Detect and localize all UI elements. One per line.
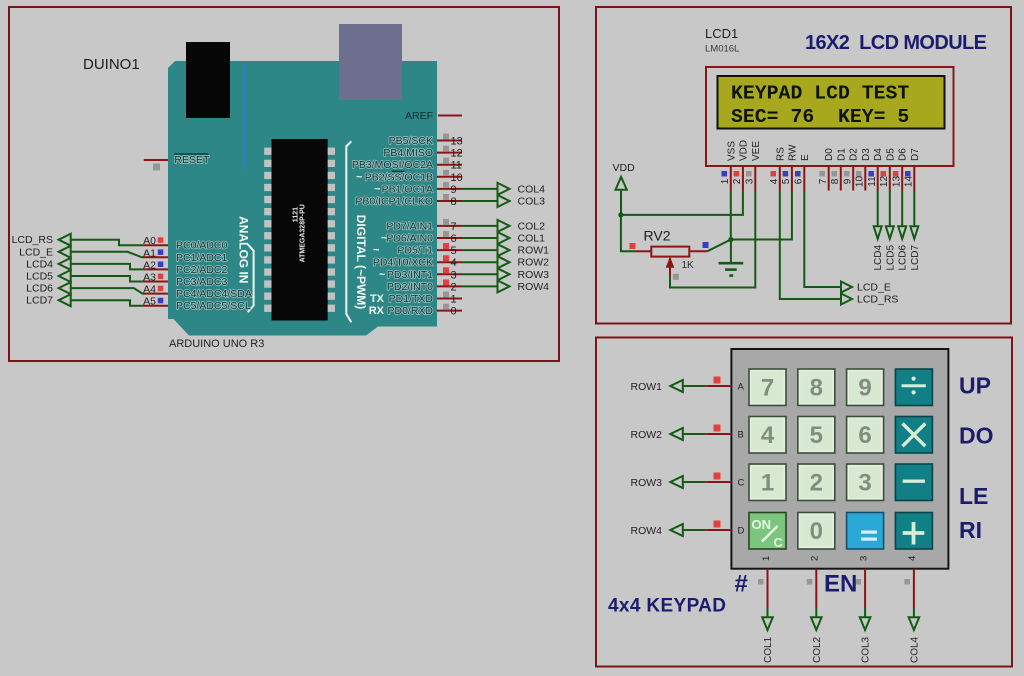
- svg-text:COL4: COL4: [909, 636, 920, 663]
- wire D4 to LCD4: [873, 191, 884, 271]
- svg-text:COL4: COL4: [518, 183, 546, 195]
- svg-text:D7: D7: [910, 148, 921, 161]
- svg-text:PD3/INT1: PD3/INT1: [387, 269, 433, 281]
- svg-text:TX: TX: [370, 293, 385, 305]
- svg-text:LCD_RS: LCD_RS: [12, 234, 53, 246]
- svg-text:VDD: VDD: [613, 162, 636, 174]
- svg-text:4: 4: [907, 556, 918, 561]
- svg-text:COL3: COL3: [861, 636, 872, 663]
- svg-text:RV2: RV2: [644, 228, 671, 244]
- svg-text:LCD7: LCD7: [26, 295, 53, 307]
- svg-text:4x4 KEYPAD: 4x4 KEYPAD: [608, 596, 726, 617]
- pin PD4/T0/XCK: [373, 255, 462, 269]
- pin RESET wire: [144, 159, 168, 161]
- junction node ground: [728, 237, 733, 242]
- svg-text:1: 1: [761, 556, 772, 561]
- button 5: [798, 417, 835, 454]
- USB connector: [186, 42, 230, 118]
- frame: Arduino module border: [9, 7, 559, 361]
- LCD LM016L body: [706, 67, 954, 166]
- junction node VDD: [618, 212, 623, 217]
- button plus: [895, 513, 932, 550]
- pin PB5/SCK: [389, 134, 463, 148]
- wire pin8 to COL3: [462, 195, 545, 208]
- svg-text:COL2: COL2: [518, 220, 546, 232]
- svg-text:D1: D1: [836, 148, 847, 161]
- pin PB1/OC1A: [374, 182, 462, 196]
- svg-text:PB5/SCK: PB5/SCK: [389, 135, 433, 147]
- wire RS to LCD_RS: [780, 191, 841, 300]
- LCD pin 7 stub: [818, 166, 829, 191]
- svg-text:8: 8: [451, 196, 457, 208]
- svg-text:ROW4: ROW4: [518, 281, 550, 293]
- wire pin6 to COL1: [462, 232, 545, 245]
- svg-text:COL1: COL1: [763, 636, 774, 663]
- svg-text:UP: UP: [959, 373, 991, 399]
- svg-text:COL1: COL1: [518, 233, 546, 245]
- svg-text:PB4/MISO: PB4/MISO: [383, 147, 433, 159]
- pin A5 PC5/ADC5/SCL: [143, 296, 251, 313]
- LCD screen: [718, 76, 945, 129]
- svg-text:PB0/ICP1/CLKO: PB0/ICP1/CLKO: [355, 196, 433, 208]
- svg-text:ROW2: ROW2: [631, 429, 663, 441]
- svg-text:PD5/T1: PD5/T1: [397, 245, 433, 257]
- svg-text:3: 3: [745, 178, 756, 184]
- svg-text:RI: RI: [959, 517, 982, 543]
- power VDD symbol: [613, 162, 636, 215]
- wire D6 to LCD6: [898, 191, 909, 271]
- svg-text:7: 7: [451, 221, 457, 233]
- svg-text:ROW3: ROW3: [518, 269, 550, 281]
- LCD pin 9 stub: [842, 166, 853, 191]
- svg-text:COL2: COL2: [812, 636, 823, 663]
- svg-text:ATMEGA328P-PU: ATMEGA328P-PU: [300, 204, 307, 262]
- svg-text:2: 2: [451, 281, 457, 293]
- button 9: [847, 369, 884, 406]
- svg-text:PD2/INT0: PD2/INT0: [387, 281, 433, 293]
- svg-text:LCD5: LCD5: [26, 271, 53, 283]
- svg-text:LCD_E: LCD_E: [857, 282, 891, 294]
- svg-text:PD1/TXD: PD1/TXD: [389, 293, 434, 305]
- chip U1 pins left: [264, 148, 271, 312]
- button 1: [749, 464, 786, 501]
- svg-text:LM016L: LM016L: [705, 44, 739, 55]
- svg-text:3: 3: [858, 470, 871, 497]
- svg-text:11: 11: [867, 176, 878, 187]
- terminal ROW2 wire: [631, 425, 732, 442]
- svg-text:PD4/T0/XCK: PD4/T0/XCK: [373, 257, 433, 269]
- wire pin4 to ROW2: [462, 256, 549, 269]
- svg-text:~: ~: [356, 171, 363, 183]
- svg-text:D: D: [738, 526, 745, 537]
- pin PD5/T1: [373, 243, 462, 257]
- svg-text:ANALOG IN: ANALOG IN: [237, 216, 251, 283]
- svg-text:E: E: [800, 154, 811, 161]
- svg-text:PB2/SS/OC1B: PB2/SS/OC1B: [365, 171, 433, 183]
- svg-text:D0: D0: [824, 148, 835, 161]
- pin PB0/ICP1/CLKO: [355, 194, 462, 208]
- svg-text:9: 9: [451, 184, 457, 196]
- svg-text:A1: A1: [143, 247, 156, 259]
- pin RESET label: [174, 154, 210, 166]
- svg-text:8: 8: [830, 178, 841, 184]
- svg-text:13: 13: [451, 136, 463, 148]
- wire D7 to LCD7: [910, 191, 921, 271]
- svg-text:LCD_E: LCD_E: [19, 246, 53, 258]
- button minus: [895, 464, 932, 501]
- bracket analog group: [248, 244, 254, 312]
- svg-text:PB1/OC1A: PB1/OC1A: [382, 183, 433, 195]
- svg-text:PD6/AIN0: PD6/AIN0: [386, 233, 433, 245]
- wire D5 to LCD5: [885, 191, 896, 271]
- svg-text:COL3: COL3: [518, 196, 546, 208]
- svg-text:2: 2: [732, 178, 743, 184]
- LCD pin 8 stub: [830, 166, 841, 191]
- svg-text:1: 1: [720, 178, 731, 184]
- resistor RV2 pot: [630, 242, 709, 280]
- pin A0 PC0/ADC0: [143, 235, 227, 252]
- wire pin7 to COL2: [462, 220, 545, 233]
- svg-text:11: 11: [451, 160, 462, 172]
- svg-text:12: 12: [879, 176, 890, 188]
- wire VDD to RV2: [621, 215, 636, 251]
- svg-text:PB3/MOSI/OC2A: PB3/MOSI/OC2A: [352, 159, 433, 171]
- terminal LCD6 wire: [26, 282, 144, 295]
- wire RW to ground junction: [731, 191, 792, 240]
- svg-text:3: 3: [858, 556, 869, 561]
- wire VDD to LCD pin2: [621, 191, 743, 215]
- wire pin2 to ROW4: [462, 280, 549, 293]
- pin PD6/AIN0: [381, 231, 462, 245]
- button equals: [847, 513, 884, 550]
- svg-text:12: 12: [451, 148, 463, 160]
- svg-text:6: 6: [794, 178, 805, 184]
- svg-text:5: 5: [451, 245, 457, 257]
- svg-text:PC5/ADC5/SCL: PC5/ADC5/SCL: [176, 300, 251, 312]
- terminal ROW4 wire: [631, 521, 732, 538]
- svg-text:~: ~: [373, 245, 380, 257]
- svg-text:ON: ON: [752, 517, 772, 532]
- LCD pin 5 stub: [781, 166, 792, 191]
- wire E to LCD_E: [804, 191, 841, 288]
- svg-text:6: 6: [858, 422, 871, 449]
- svg-text:RS: RS: [775, 147, 786, 161]
- terminal LCD_RS arrow: [841, 294, 898, 306]
- button 6: [847, 417, 884, 454]
- svg-text:DO: DO: [959, 423, 994, 449]
- button 8: [798, 369, 835, 406]
- wire LCD pin1 VSS down: [730, 191, 732, 240]
- frame: LCD module border: [596, 7, 1011, 324]
- pin PD1/TXD: [370, 292, 462, 306]
- svg-text:D6: D6: [898, 148, 909, 161]
- svg-text:4: 4: [761, 422, 775, 449]
- svg-text:10: 10: [451, 172, 463, 184]
- svg-text:3: 3: [451, 269, 457, 281]
- wire RV2 wiper to VEE: [670, 191, 755, 288]
- svg-text:4: 4: [451, 257, 457, 269]
- button divide: [895, 369, 932, 406]
- svg-text:1: 1: [451, 294, 457, 306]
- LCD pin 6 stub: [794, 166, 805, 191]
- svg-text:ROW1: ROW1: [631, 381, 663, 393]
- pin A3 PC3/ADC3: [143, 272, 227, 289]
- chip U1 pins right: [328, 148, 335, 312]
- svg-text:A0: A0: [143, 235, 156, 247]
- keypad body panel: [731, 349, 948, 569]
- svg-text:PC1/ADC1: PC1/ADC1: [176, 252, 228, 264]
- svg-text:LCD4: LCD4: [873, 244, 884, 270]
- svg-text:LCD6: LCD6: [26, 283, 53, 295]
- svg-text:PD7/AIN1: PD7/AIN1: [386, 220, 433, 232]
- svg-text:PC2/ADC2: PC2/ADC2: [176, 264, 228, 276]
- svg-text:14: 14: [904, 176, 915, 188]
- svg-text:D5: D5: [885, 148, 896, 161]
- chip U1 ATMEGA328P body: [272, 139, 328, 321]
- terminal COL2 wire: [807, 569, 823, 663]
- terminal COL1 wire: [758, 569, 774, 663]
- svg-text:RESET: RESET: [174, 154, 210, 166]
- pin A1 PC1/ADC1: [143, 247, 227, 264]
- pin RESET marker: [153, 164, 160, 171]
- svg-text:5: 5: [781, 178, 792, 184]
- svg-text:ROW2: ROW2: [518, 257, 550, 269]
- svg-text:13: 13: [891, 176, 902, 188]
- svg-text:LCD6: LCD6: [898, 244, 909, 270]
- svg-text:LCD4: LCD4: [26, 258, 53, 270]
- svg-text:9: 9: [842, 178, 853, 184]
- pin PB4/MISO: [383, 146, 462, 160]
- bracket digital group: [346, 141, 351, 322]
- svg-text:D3: D3: [861, 148, 872, 161]
- svg-text:~: ~: [379, 269, 386, 281]
- svg-text:RX: RX: [369, 305, 385, 317]
- power jack: [339, 24, 402, 100]
- button multiply: [895, 417, 932, 454]
- svg-text:LCD_RS: LCD_RS: [857, 294, 898, 306]
- svg-text:6: 6: [451, 233, 457, 245]
- svg-text:VDD: VDD: [738, 140, 749, 161]
- svg-text:1K: 1K: [682, 260, 695, 271]
- svg-text:RW: RW: [787, 144, 798, 161]
- LCD pin 14 stub: [904, 166, 915, 191]
- terminal LCD5 wire: [26, 270, 144, 283]
- svg-text:~: ~: [374, 183, 381, 195]
- svg-text:PC4/ADC4/SDA: PC4/ADC4/SDA: [176, 288, 252, 300]
- svg-text:LE: LE: [959, 483, 988, 509]
- svg-text:4: 4: [769, 178, 780, 184]
- header strip graphic: [243, 65, 245, 170]
- svg-text:10: 10: [855, 176, 866, 188]
- terminal LCD_RS wire: [12, 234, 144, 247]
- pin PD2/INT0: [387, 279, 462, 293]
- button 7: [749, 369, 786, 406]
- pin AREF wire: [438, 115, 462, 117]
- svg-text:LCD1: LCD1: [705, 26, 738, 41]
- svg-text:0: 0: [451, 306, 457, 318]
- svg-text:#: #: [735, 571, 748, 598]
- LCD pin 1 stub: [720, 166, 731, 191]
- svg-text:SEC= 76 KEY= 5: SEC= 76 KEY= 5: [731, 106, 909, 128]
- LCD pin 11 stub: [867, 166, 878, 191]
- button 4: [749, 417, 786, 454]
- svg-text:LCD5: LCD5: [885, 244, 896, 270]
- button 0: [798, 513, 835, 550]
- svg-text:PD0/RXD: PD0/RXD: [387, 305, 433, 317]
- svg-text:KEYPAD LCD TEST: KEYPAD LCD TEST: [731, 83, 909, 105]
- svg-text:PC3/ADC3: PC3/ADC3: [176, 276, 228, 288]
- svg-text:AREF: AREF: [405, 110, 433, 122]
- LCD pin 10 stub: [855, 166, 866, 191]
- svg-text:A4: A4: [143, 284, 156, 296]
- terminal LCD7 wire: [26, 294, 144, 307]
- wire pin9 to COL4: [462, 183, 545, 196]
- pin PD7/AIN1: [386, 219, 462, 233]
- svg-text:ROW4: ROW4: [631, 525, 663, 537]
- svg-text:2: 2: [810, 470, 823, 497]
- LCD pin 13 stub: [891, 166, 902, 191]
- svg-text:7: 7: [818, 178, 829, 184]
- button ON/C: [749, 513, 786, 551]
- terminal COL3 wire: [856, 569, 872, 663]
- svg-text:PC0/ADC0: PC0/ADC0: [176, 240, 228, 252]
- svg-text:A2: A2: [143, 259, 156, 271]
- svg-text:D4: D4: [873, 148, 884, 161]
- terminal ROW3 wire: [631, 473, 732, 490]
- svg-text:16X2 LCD MODULE: 16X2 LCD MODULE: [805, 32, 987, 54]
- svg-text:ROW1: ROW1: [518, 245, 550, 257]
- svg-text:EN: EN: [824, 571, 857, 598]
- svg-text:9: 9: [858, 375, 871, 402]
- svg-text:B: B: [738, 430, 744, 441]
- LCD pin 3 stub: [745, 166, 756, 191]
- svg-text:0: 0: [810, 518, 823, 545]
- svg-text:VSS: VSS: [726, 141, 737, 161]
- svg-text:C: C: [774, 535, 784, 550]
- wire pin5 to ROW1: [462, 244, 549, 257]
- svg-text:A: A: [738, 382, 745, 393]
- svg-text:DUINO1: DUINO1: [83, 56, 140, 73]
- LCD pin 2 stub: [732, 166, 743, 191]
- pin PD3/INT1: [379, 267, 462, 281]
- terminal LCD_E wire: [19, 246, 144, 258]
- pin A2 PC2/ADC2: [143, 259, 227, 276]
- svg-text:D2: D2: [849, 148, 860, 161]
- svg-text:7: 7: [761, 375, 774, 402]
- pin PD0/RXD: [369, 304, 462, 318]
- terminal LCD4 wire: [26, 258, 144, 271]
- pin PB2/SS/OC1B: [356, 170, 463, 184]
- ground symbol: [719, 240, 744, 276]
- svg-text:5: 5: [810, 422, 823, 449]
- LCD pin 12 stub: [879, 166, 890, 191]
- wire RV2 to ground junction: [707, 240, 731, 252]
- svg-text:1121: 1121: [292, 207, 299, 222]
- svg-text:1: 1: [761, 470, 774, 497]
- wire pin3 to ROW3: [462, 268, 549, 281]
- button 2: [798, 464, 835, 501]
- svg-text:2: 2: [810, 556, 821, 561]
- svg-text:VEE: VEE: [751, 141, 762, 161]
- svg-text:DIGITAL (~PWM): DIGITAL (~PWM): [354, 215, 368, 310]
- svg-text:C: C: [738, 478, 745, 489]
- pin A4 PC4/ADC4/SDA: [143, 284, 252, 301]
- svg-text:A5: A5: [143, 296, 156, 308]
- svg-text:LCD7: LCD7: [910, 244, 921, 270]
- frame: keypad module border: [596, 338, 1012, 667]
- Arduino board body: [168, 61, 437, 336]
- terminal ROW1 wire: [631, 377, 732, 394]
- svg-text:ARDUINO UNO R3: ARDUINO UNO R3: [169, 338, 264, 350]
- terminal LCD_E arrow: [841, 282, 891, 294]
- pin PB3/MOSI/OC2A: [352, 158, 462, 172]
- svg-text:8: 8: [810, 375, 823, 402]
- terminal COL4 wire: [904, 569, 920, 663]
- button 3: [847, 464, 884, 501]
- svg-text:ROW3: ROW3: [631, 477, 663, 489]
- svg-text:A3: A3: [143, 272, 156, 284]
- LCD pin 4 stub: [769, 166, 780, 191]
